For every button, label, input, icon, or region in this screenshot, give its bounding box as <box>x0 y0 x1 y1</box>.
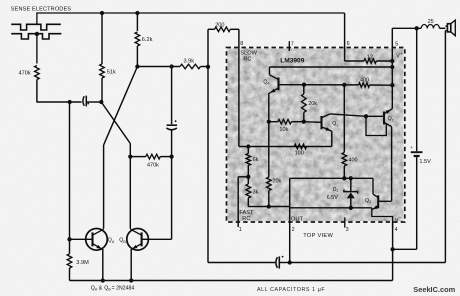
svg-text:6: 6 <box>347 41 350 47</box>
svg-text:10k: 10k <box>279 127 288 133</box>
svg-text:6.5V: 6.5V <box>327 195 339 201</box>
svg-text:470k: 470k <box>147 163 159 169</box>
svg-text:= 2N2484: = 2N2484 <box>112 285 135 291</box>
svg-text:51k: 51k <box>107 69 116 75</box>
svg-text:20k: 20k <box>272 178 281 184</box>
svg-text:3.9k: 3.9k <box>184 58 195 64</box>
svg-text:OUT: OUT <box>291 216 304 222</box>
svg-text:3.9M: 3.9M <box>76 260 89 266</box>
svg-text:LM3909: LM3909 <box>280 57 305 64</box>
svg-text:3: 3 <box>346 227 349 233</box>
svg-text:SENSE ELECTRODES: SENSE ELECTRODES <box>11 6 72 12</box>
svg-text:12: 12 <box>367 54 373 60</box>
svg-text:25: 25 <box>428 19 434 25</box>
svg-text:−: − <box>399 215 402 220</box>
svg-text:+: + <box>410 146 413 151</box>
svg-text:20k: 20k <box>308 101 317 107</box>
svg-text:4: 4 <box>395 227 398 233</box>
svg-text:6.2k: 6.2k <box>142 37 153 43</box>
svg-text:400: 400 <box>348 157 357 163</box>
svg-text:200: 200 <box>215 22 224 28</box>
svg-text:&: & <box>99 285 103 291</box>
svg-text:100: 100 <box>295 150 304 156</box>
svg-text:7: 7 <box>291 41 294 47</box>
svg-text:1.5V: 1.5V <box>419 159 431 165</box>
svg-text:3k: 3k <box>253 190 259 196</box>
svg-text:ALL CAPACITORS 1 μF: ALL CAPACITORS 1 μF <box>257 287 325 293</box>
svg-text:2: 2 <box>292 227 295 233</box>
svg-text:RC: RC <box>242 216 250 222</box>
svg-text:400: 400 <box>360 77 369 83</box>
svg-text:5: 5 <box>395 41 398 47</box>
svg-text:6k: 6k <box>253 157 259 163</box>
svg-text:1: 1 <box>239 227 242 233</box>
svg-text:TOP VIEW: TOP VIEW <box>303 233 333 239</box>
svg-text:RC: RC <box>243 57 251 63</box>
svg-text:470k: 470k <box>19 71 31 77</box>
svg-text:SeekIC.com: SeekIC.com <box>413 285 455 294</box>
svg-text:8: 8 <box>240 41 243 47</box>
